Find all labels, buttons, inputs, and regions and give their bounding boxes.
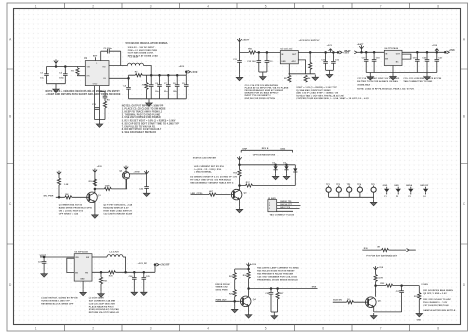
svg-text:V SNS: V SNS — [421, 284, 428, 286]
notes text — [122, 105, 180, 135]
resistor R12 collector — [93, 179, 96, 186]
notes mc left 2 — [194, 166, 225, 174]
svg-text:8: 8 — [437, 327, 439, 331]
ground right 2 — [426, 73, 428, 75]
power flag +5V0 — [188, 70, 191, 73]
wire led top rail — [240, 164, 296, 166]
svg-text:7. EN PULLED TO VIN VIA R1: 7. EN PULLED TO VIN VIA R1 — [122, 125, 156, 128]
svg-text:VIN 6.5V .. 18V DC INPUT: VIN 6.5V .. 18V DC INPUT — [128, 47, 155, 49]
BLOCK-ML driver transistor — [44, 166, 150, 219]
notes br right — [423, 289, 456, 312]
svg-text:ADD C16 IF LOAD STEP > 150MA /: ADD C16 IF LOAD STEP > 150MA / US — [296, 92, 338, 95]
wire fb rail — [289, 73, 316, 75]
svg-text:Q2 P-FET DMG2301L -2.4A: Q2 P-FET DMG2301L -2.4A — [103, 204, 132, 207]
resistor R33 divider — [418, 286, 420, 293]
power flag +3V8 — [435, 49, 439, 53]
U1 pin labels — [87, 63, 107, 85]
resistor R24 — [247, 272, 250, 279]
wire collector Q1 — [94, 172, 96, 192]
svg-text:NOTE: LOAD IS RF PA MODULE, PE: NOTE: LOAD IS RF PA MODULE, PEAK 1.9A / … — [357, 88, 414, 91]
svg-text:OFF SINKS < 1UA: OFF SINKS < 1UA — [59, 212, 79, 215]
notes bc left — [215, 284, 229, 292]
svg-text:PLACE NEAR PA PIN 9: PLACE NEAR PA PIN 9 — [89, 305, 114, 308]
svg-text:GND RF: GND RF — [420, 185, 429, 187]
ground U1 — [95, 86, 106, 120]
svg-text:SW: SW — [102, 66, 105, 68]
wire en loop — [67, 258, 74, 272]
resistor R31 — [374, 275, 377, 282]
svg-text:4: 4 — [207, 327, 209, 331]
svg-text:GND: GND — [383, 185, 388, 187]
resistor R27 — [277, 289, 279, 293]
svg-text:5. R2 / R3 SET VOUT = 0.8V (1: 5. R2 / R3 SET VOUT = 0.8V (1 + R2/R3) =… — [122, 120, 176, 122]
wire tp rail — [329, 196, 374, 198]
svg-text:FB1 BLM18AG601 600R AT 100MHZ: FB1 BLM18AG601 600R AT 100MHZ — [245, 89, 284, 92]
svg-text:2. KEEP FB TRACE AWAY FROM L1: 2. KEEP FB TRACE AWAY FROM L1 — [122, 110, 163, 113]
capacitor C20 — [426, 52, 428, 72]
resistor R17 — [246, 184, 253, 187]
ground Q4 — [245, 312, 251, 318]
svg-text:D2 GREEN 570NM VF 2.1V, D3 RED: D2 GREEN 570NM VF 2.1V, D3 RED VF 1.8V — [190, 177, 237, 179]
wire l2 down — [123, 257, 126, 272]
svg-text:+3V3: +3V3 — [327, 45, 333, 47]
svg-text:3. THERMAL PAD TO GND PLANE: 3. THERMAL PAD TO GND PLANE — [122, 113, 161, 116]
svg-text:L2 4.7UH: L2 4.7UH — [110, 251, 120, 254]
svg-text:FSW = 2.1 MHZ FIXED PWM: FSW = 2.1 MHZ FIXED PWM — [128, 50, 157, 52]
svg-text:GND: GND — [281, 61, 286, 63]
node vout3 — [444, 51, 447, 54]
J2 pin 1 wire — [277, 202, 299, 204]
svg-text:100n: 100n — [59, 77, 65, 79]
capacitor C16 — [332, 52, 334, 70]
wire to gate — [95, 179, 127, 189]
wire U2 gnd stub — [288, 64, 290, 74]
ground caps — [262, 72, 264, 74]
svg-text:2: 2 — [92, 327, 94, 331]
svg-text:4. USE 2OZ COPPER FOR POWER: 4. USE 2OZ COPPER FOR POWER — [122, 116, 161, 119]
BLOCK-MC switch transistor — [190, 147, 300, 216]
wire input bottom rail — [47, 83, 66, 85]
wire tie bc — [235, 269, 249, 273]
svg-text:C19..C21 LOW ESR, PLACE AT PIN: C19..C21 LOW ESR, PLACE AT PIN — [403, 77, 441, 80]
svg-text:2: 2 — [269, 205, 270, 207]
svg-text:1K: 1K — [347, 299, 350, 301]
LED D2 — [275, 165, 277, 166]
capacitor C21 — [436, 52, 438, 72]
op-amp U1 box — [85, 61, 109, 86]
svg-text:C27 100N FILTER POLE: C27 100N FILTER POLE — [423, 305, 449, 307]
svg-text:C17,C18 CERAMIC 22UF 10V X5R 0: C17,C18 CERAMIC 22UF 10V X5R 0805 — [357, 77, 400, 80]
svg-text:GND: GND — [80, 278, 85, 280]
ground output — [148, 99, 150, 101]
svg-text:STAR GROUND AT C25 PAD: STAR GROUND AT C25 PAD — [89, 308, 120, 311]
wire base bc — [215, 300, 239, 302]
notes text right 2 — [403, 77, 441, 83]
node K1 — [258, 51, 261, 54]
svg-text:DERATE FOR DC BIAS EFFECT: DERATE FOR DC BIAS EFFECT — [245, 92, 280, 95]
BLOCK-TM ldo regulator 1 — [233, 38, 349, 100]
svg-text:B: B — [9, 115, 11, 119]
svg-text:FREEWHEEL DIODE INSIDE MODULE: FREEWHEEL DIODE INSIDE MODULE — [257, 279, 298, 281]
node J2 — [64, 65, 67, 68]
node l2 join — [124, 271, 127, 274]
node collector br — [374, 284, 377, 287]
svg-text:0402: 0402 — [280, 147, 286, 150]
svg-text:DNP R6 FOR FIXED OPTION: DNP R6 FOR FIXED OPTION — [245, 98, 276, 100]
svg-text:STATUS LED DRIVER: STATUS LED DRIVER — [193, 156, 217, 159]
transistor Q5 — [366, 297, 377, 308]
ground bc rail — [273, 312, 275, 313]
svg-text:F4: F4 — [423, 195, 425, 198]
resistor R6 — [304, 75, 307, 82]
ground R26 — [232, 307, 238, 313]
svg-text:8: 8 — [437, 4, 439, 8]
notes bl mid — [89, 297, 120, 315]
J2 pin 3 wire — [277, 207, 300, 209]
capacitor C4 fb — [128, 75, 130, 99]
svg-text:6: 6 — [322, 4, 324, 8]
svg-text:+3V8: +3V8 — [378, 267, 384, 269]
wire vbat drop — [55, 63, 57, 66]
LED D3 — [286, 165, 288, 166]
svg-text:TAG CONNECT TC2030: TAG CONNECT TC2030 — [270, 213, 295, 216]
wire base br — [333, 301, 366, 303]
svg-text:0R: 0R — [377, 246, 380, 248]
regulator U2 box — [280, 51, 298, 64]
svg-text:+5V0: +5V0 — [179, 66, 185, 68]
svg-text:REVERSE BLOCK WHEN OFF: REVERSE BLOCK WHEN OFF — [41, 303, 74, 305]
svg-text:LOAD SWITCH, GATED BY RF EN: LOAD SWITCH, GATED BY RF EN — [41, 297, 78, 300]
svg-text:U4 TPS7A20: U4 TPS7A20 — [385, 47, 399, 50]
power flag +3V3 — [329, 49, 333, 53]
svg-text:+3V3 RF: +3V3 RF — [160, 265, 170, 267]
node FB — [127, 77, 130, 80]
svg-text:FIT FOR EXT ANTENNA DET: FIT FOR EXT ANTENNA DET — [366, 254, 397, 257]
svg-text:TP3: TP3 — [347, 184, 351, 186]
net flag GND1 — [384, 187, 389, 195]
net flag GND4 — [423, 187, 428, 195]
svg-text:COPPER POUR 600 MM2 MIN. I ~ 0: COPPER POUR 600 MM2 MIN. I ~ 0.5A — [296, 97, 338, 100]
notes text left 2 — [357, 77, 414, 90]
capacitor C17 — [365, 52, 367, 72]
svg-text:5: 5 — [265, 327, 267, 331]
ground D2 — [272, 174, 278, 180]
ground Q5 — [371, 313, 377, 319]
svg-text:ON = LOGIC HIGH 3V3: ON = LOGIC HIGH 3V3 — [59, 210, 84, 212]
svg-text:TIMER CH2: TIMER CH2 — [215, 287, 228, 289]
svg-text:PLACE AT U2 INPUT PIN, VIA TO: PLACE AT U2 INPUT PIN, VIA TO PLANE — [245, 86, 289, 89]
transistor Q4 — [240, 296, 251, 307]
wire input rail — [240, 51, 281, 53]
svg-text:BUZ EN: BUZ EN — [333, 300, 342, 302]
resistor R30 link — [382, 249, 389, 252]
ground input — [55, 84, 57, 87]
svg-text:3: 3 — [269, 208, 270, 210]
svg-text:VOUT = 1.25 (1 + R6/R5) = 3.30: VOUT = 1.25 (1 + R6/R5) = 3.30V TYP — [296, 87, 337, 89]
resistor R7 divider — [309, 52, 311, 62]
svg-text:4.7K: 4.7K — [378, 277, 383, 280]
svg-text:C22 LIMITS INRUSH SLEW: C22 LIMITS INRUSH SLEW — [103, 213, 133, 215]
ground U5 — [82, 281, 84, 290]
notes text right — [296, 87, 344, 100]
wire adj loop — [298, 60, 305, 74]
svg-text:C26 / R27 SNUBBER FOR COIL KIC: C26 / R27 SNUBBER FOR COIL KICK — [257, 276, 297, 278]
svg-text:J2 SWD: J2 SWD — [268, 198, 277, 200]
wire bottom rail 2 — [366, 72, 437, 74]
ground tp rail — [373, 197, 375, 200]
wire input drop — [239, 42, 241, 53]
wire emitter bc — [248, 306, 250, 312]
testpoint TP5 — [371, 186, 376, 198]
node collector — [94, 188, 97, 191]
svg-text:SWCLK TP7: SWCLK TP7 — [280, 204, 292, 206]
svg-text:FIT ONLY ONE OF D2 / D3 PER BU: FIT ONLY ONE OF D2 / D3 PER BUILD — [190, 180, 231, 182]
notes text ml right — [103, 204, 133, 216]
regulator U4 box — [384, 50, 402, 65]
svg-text:IOUT MAX 600MA CONT.: IOUT MAX 600MA CONT. — [128, 52, 154, 55]
wire out bottom rail — [326, 69, 334, 71]
power flag +5V bc — [246, 263, 250, 267]
testpoint TP4 — [357, 186, 362, 198]
ground out caps — [329, 70, 331, 72]
BLOCK-MR testpoints — [326, 183, 429, 206]
svg-text:EN TIED TO IN FOR ALWAYS ON RA: EN TIED TO IN FOR ALWAYS ON RAIL — [357, 80, 399, 83]
svg-text:TP2: TP2 — [336, 184, 340, 186]
svg-text:2: 2 — [92, 4, 94, 8]
svg-text:TP1: TP1 — [326, 184, 330, 186]
svg-text:TURN ON RISE 1.2MS TYP: TURN ON RISE 1.2MS TYP — [41, 301, 70, 303]
node K2 — [266, 51, 269, 54]
node vout2 — [337, 51, 340, 54]
power flag +BATT — [237, 38, 241, 42]
svg-text:+5V0: +5V0 — [191, 70, 198, 74]
notes mc left 3 — [190, 177, 237, 185]
wire sw out — [92, 256, 107, 258]
wire U4 gnd stub — [392, 66, 394, 74]
connector J2 box — [268, 200, 277, 212]
net flag GND2 — [396, 187, 401, 195]
svg-text:RETURN VIA STITCHING 4X: RETURN VIA STITCHING 4X — [89, 311, 120, 314]
capacitor C7 — [167, 75, 169, 99]
node J1 — [55, 65, 58, 68]
svg-text:3: 3 — [150, 4, 152, 8]
BLOCK-TR ldo regulator 2 — [340, 43, 456, 100]
svg-text:+5V0: +5V0 — [97, 166, 103, 168]
svg-text:8. DO NOT STUFF C4 BY DEFAULT: 8. DO NOT STUFF C4 BY DEFAULT — [122, 128, 162, 131]
svg-text:SNS: SNS — [312, 287, 317, 289]
ground U2 — [312, 75, 318, 81]
svg-text:BASE DRIVE FROM MCU GPIO: BASE DRIVE FROM MCU GPIO — [59, 207, 93, 210]
capacitor C22 — [146, 174, 148, 191]
notes bl left — [41, 297, 78, 306]
wire emitter Q3 — [239, 199, 241, 207]
svg-text:+3V8: +3V8 — [449, 49, 456, 52]
svg-text:Q1 MMBT3904 SOT23: Q1 MMBT3904 SOT23 — [59, 204, 83, 207]
node base — [58, 196, 61, 199]
svg-text:SAT CURRENT 2.4A MIN: SAT CURRENT 2.4A MIN — [89, 300, 116, 303]
node base bc — [233, 300, 236, 303]
ground C22 — [143, 191, 149, 197]
svg-text:I = (5V0 - VF - VCE) / R16: I = (5V0 - VF - VCE) / R16 — [194, 169, 222, 171]
power flag +VBAT — [54, 59, 58, 63]
svg-text:+VSW: +VSW — [134, 172, 140, 174]
BLOCK-BL rf regulator — [38, 251, 170, 315]
svg-text:C12 10U: C12 10U — [247, 61, 256, 63]
resistor R34 base — [347, 301, 354, 304]
ground C25 — [141, 290, 147, 296]
svg-text:5V0 BUCK REGULATOR 600MA: 5V0 BUCK REGULATOR 600MA — [126, 41, 168, 45]
svg-text:1.0K: 1.0K — [64, 184, 69, 186]
svg-text:ADJ: ADJ — [292, 60, 296, 63]
capacitor C11 — [239, 52, 241, 74]
wire L1 out — [144, 66, 152, 76]
svg-text:BST: BST — [93, 56, 98, 58]
ground C24 — [131, 290, 137, 296]
testpoint TP1 — [326, 186, 331, 198]
svg-text:R26 PREVENTS FALSE TRIGGER: R26 PREVENTS FALSE TRIGGER — [257, 272, 293, 275]
svg-text:4: 4 — [207, 4, 209, 8]
svg-text:SW: SW — [86, 257, 89, 259]
svg-text:= 6MA NOMINAL: = 6MA NOMINAL — [194, 171, 213, 174]
notes bc right — [257, 267, 299, 282]
power flag +5V0 pullup — [57, 171, 61, 175]
svg-text:Q5 OFF, V SNS = 3.8V: Q5 OFF, V SNS = 3.8V — [423, 293, 447, 295]
capacitor C5 — [150, 75, 152, 99]
svg-text:R31 SOURCES BIAS WHEN: R31 SOURCES BIAS WHEN — [423, 289, 453, 292]
wire collector out br — [376, 285, 420, 287]
capacitor C9 — [185, 75, 187, 99]
power flag +5V top — [93, 169, 97, 173]
svg-text:+3V3 MCU SUPPLY: +3V3 MCU SUPPLY — [299, 40, 321, 42]
svg-text:GNDA: GNDA — [406, 184, 413, 187]
svg-text:+ KEEP GND RETURN PATH SHORT A: + KEEP GND RETURN PATH SHORT AND AWAY FR… — [46, 93, 121, 96]
wire input rail — [47, 66, 86, 68]
svg-text:SEE ASSEMBLY VARIANT TABLE SHT: SEE ASSEMBLY VARIANT TABLE SHT 4 — [190, 181, 234, 184]
svg-text:+3V8: +3V8 — [432, 45, 438, 47]
svg-text:9. SEE DATASHEET SNVSAC6: 9. SEE DATASHEET SNVSAC6 — [122, 131, 157, 134]
wire rev bar — [241, 150, 292, 152]
svg-text:VIN: VIN — [75, 257, 79, 259]
inductor L2 — [107, 255, 123, 257]
svg-text:F2: F2 — [396, 196, 398, 198]
wire base mc — [191, 194, 231, 196]
node bl in — [43, 256, 46, 259]
resistor R18 — [209, 193, 216, 196]
svg-text:REV B: REV B — [262, 148, 269, 150]
capacitor C6 — [159, 75, 161, 99]
BLOCK-TL buck regulator — [40, 41, 198, 134]
svg-text:1: 1 — [35, 327, 37, 331]
power flag cap rail — [144, 170, 148, 174]
wire bc rail br — [374, 311, 402, 313]
svg-text:100R: 100R — [105, 185, 111, 187]
svg-text:LED CURRENT SET BY R16: LED CURRENT SET BY R16 — [194, 166, 225, 168]
ground C23 — [41, 271, 47, 277]
ground Q3 — [236, 207, 242, 213]
ferrite FB2 — [77, 67, 79, 68]
svg-text:TAB CONNECTED TO GND: TAB CONNECTED TO GND — [403, 80, 432, 83]
BLOCK-BR buzzer driver — [333, 246, 456, 321]
node vout bl — [154, 265, 156, 273]
J2 pin 2 wire — [277, 205, 301, 207]
transistor Q2 — [125, 179, 127, 189]
svg-text:3: 3 — [150, 327, 152, 331]
resistor R2 sense — [135, 74, 142, 77]
svg-text:L2 DCR 54MR: L2 DCR 54MR — [89, 297, 104, 300]
capacitor C24 — [133, 272, 135, 289]
svg-text:C24 C25 22UF 0805 X5R: C24 C25 22UF 0805 X5R — [89, 302, 115, 305]
svg-text:300MA MAX: 300MA MAX — [357, 84, 370, 87]
svg-text:+BATT: +BATT — [357, 43, 364, 46]
wire emitter Q1 — [94, 202, 96, 212]
capacitor C8 — [176, 75, 178, 99]
svg-text:+BATT: +BATT — [242, 39, 250, 42]
svg-text:OPTION RESISTORS: OPTION RESISTORS — [253, 154, 276, 156]
wire output rail 2 — [402, 51, 445, 53]
ground Q1 — [92, 212, 98, 218]
node mc — [238, 184, 241, 187]
testpoint TP2 — [336, 186, 341, 198]
capacitor C15 — [325, 52, 327, 70]
ground R21 — [98, 291, 104, 297]
svg-text:RDS(ON) 90MR AT 4.5V: RDS(ON) 90MR AT 4.5V — [103, 207, 129, 210]
svg-text:GND: GND — [417, 319, 422, 321]
resistor R21 divider — [100, 272, 102, 277]
wire input rail 2 — [362, 51, 385, 53]
svg-text:B: B — [463, 115, 465, 119]
svg-text:F3: F3 — [409, 196, 411, 198]
svg-text:1: 1 — [269, 202, 270, 204]
svg-text:EFF 92 PCT AT 300MA LOAD: EFF 92 PCT AT 300MA LOAD — [128, 54, 159, 57]
BLOCK-BC led driver — [215, 263, 317, 320]
svg-text:6: 6 — [322, 327, 324, 331]
svg-text:1: 1 — [35, 4, 37, 8]
svg-text:FULL RANGE 0 .. 1.8V: FULL RANGE 0 .. 1.8V — [423, 301, 447, 304]
resistor R26 pulldown — [233, 290, 236, 297]
wire fb out rail — [92, 271, 155, 273]
svg-text:U2 LDL112: U2 LDL112 — [281, 49, 294, 51]
svg-text:10K: 10K — [65, 194, 69, 196]
notes text left — [245, 84, 289, 100]
svg-text:7: 7 — [380, 4, 382, 8]
resistor R32 series — [386, 284, 393, 287]
ground left 2 — [369, 73, 371, 75]
resistor R25 pullup — [233, 273, 236, 280]
wire output bottom rail — [129, 98, 187, 100]
capacitor C25 — [143, 272, 145, 289]
wire emitter br — [373, 307, 375, 312]
svg-text:IQ 1MA MAX, DROPOUT 350MV: IQ 1MA MAX, DROPOUT 350MV — [296, 89, 331, 92]
capacitor C19 — [416, 52, 418, 72]
svg-text:R25 HOLDS NODE HIGH IN RESET: R25 HOLDS NODE HIGH IN RESET — [257, 271, 295, 273]
resistor R20 — [109, 271, 116, 274]
svg-text:R24 LIMITS LAMP CURRENT TO 80M: R24 LIMITS LAMP CURRENT TO 80MA — [257, 267, 299, 270]
svg-text:NOTE: BULK + CERAMIC DECOUPLIN: NOTE: BULK + CERAMIC DECOUPLING AT MODUL… — [46, 90, 121, 93]
capacitor C27 — [401, 286, 403, 312]
svg-text:EN: EN — [87, 76, 90, 78]
J2 pin 4 wire — [277, 210, 293, 212]
capacitor C12 — [258, 52, 260, 72]
svg-text:7: 7 — [380, 327, 382, 331]
wire cap bottom rail — [259, 71, 267, 73]
capacitor C13 — [266, 52, 268, 72]
wire nr loop — [402, 54, 411, 59]
regulator U5 box — [74, 254, 92, 281]
arrow link — [407, 249, 410, 252]
ground D3 — [286, 170, 288, 174]
svg-text:GND: GND — [394, 185, 399, 187]
svg-text:C3 100n: C3 100n — [104, 48, 113, 50]
